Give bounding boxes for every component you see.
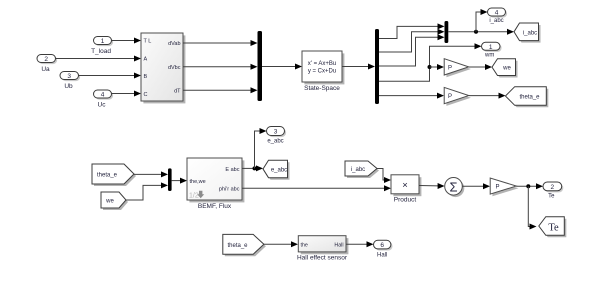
svg-text:i_abc: i_abc <box>523 30 537 36</box>
wire from we to mux3 <box>126 182 168 200</box>
wire branch to gain P1 <box>430 64 445 70</box>
svg-text:BEMF, Flux: BEMF, Flux <box>198 203 232 210</box>
svg-text:×: × <box>402 180 408 191</box>
gain P1 <box>444 59 471 77</box>
svg-text:the: the <box>301 243 308 249</box>
mux Mux3 <box>168 168 172 191</box>
svg-text:Ua: Ua <box>41 66 50 73</box>
wire inport4 to block C <box>112 91 142 97</box>
subsystem Hall effect sensor <box>297 236 348 262</box>
wire dVab to mux1 <box>183 40 258 46</box>
svg-text:Te: Te <box>548 194 555 200</box>
mux Mux1 <box>258 31 263 101</box>
wire dT to mux1 <box>183 87 258 93</box>
product block <box>391 175 421 204</box>
wire from i_abc to product in1 <box>377 169 391 184</box>
svg-text:theta_e: theta_e <box>227 243 248 249</box>
svg-text:2: 2 <box>44 56 48 63</box>
svg-text:the,we: the,we <box>190 179 206 185</box>
outport 2 Te <box>543 182 563 200</box>
from tag i_abc <box>345 161 379 178</box>
svg-text:we: we <box>502 66 511 72</box>
inport 2 Ua <box>37 55 57 73</box>
from tag theta_e (BEMF row) <box>92 164 136 186</box>
wire E abc to goto e_abc <box>242 165 263 171</box>
outport 6 Hall <box>374 240 393 258</box>
svg-text:1: 1 <box>489 44 493 51</box>
svg-text:Hall: Hall <box>334 243 343 249</box>
svg-text:C: C <box>144 92 148 98</box>
svg-text:Uc: Uc <box>98 101 107 108</box>
inport 1 T_load <box>91 37 113 55</box>
svg-text:dVab: dVab <box>168 41 180 47</box>
wire inport3 to block B <box>79 73 142 79</box>
junction dot wm branch <box>428 65 432 69</box>
from tag theta_e (Hall row) <box>223 234 266 256</box>
svg-text:3: 3 <box>274 129 278 136</box>
wire mux1 to State-Space <box>262 64 302 70</box>
svg-text:Hall effect sensor: Hall effect sensor <box>297 254 348 261</box>
gain P3 <box>490 178 518 196</box>
svg-text:2: 2 <box>550 184 554 191</box>
wire inport1 to block A <box>112 38 142 44</box>
svg-text:theta_e: theta_e <box>519 95 540 101</box>
svg-text:3: 3 <box>67 73 71 80</box>
svg-text:dVbc: dVbc <box>168 65 181 71</box>
wire branch to outport 4 <box>476 9 488 32</box>
wire product to sum <box>419 183 445 189</box>
wire inport2 to block A <box>56 56 142 62</box>
svg-text:we: we <box>105 199 114 205</box>
goto tag theta_e <box>505 87 548 108</box>
svg-text:6: 6 <box>380 242 384 249</box>
goto tag i_abc <box>514 23 541 43</box>
svg-text:P: P <box>448 94 452 100</box>
svg-text:Hall: Hall <box>377 252 387 258</box>
from tag we <box>101 192 128 210</box>
svg-text:i_abc: i_abc <box>351 167 365 173</box>
wire mux2 to goto i_abc <box>448 29 514 35</box>
svg-text:E abc: E abc <box>225 167 239 173</box>
svg-text:T L: T L <box>144 39 152 45</box>
svg-text:A: A <box>144 57 148 63</box>
svg-text:theta_e: theta_e <box>97 173 118 179</box>
svg-text:Σ: Σ <box>449 179 457 194</box>
goto tag we <box>492 59 518 78</box>
wire phi'r abc to product in2 <box>242 185 391 191</box>
svg-text:B: B <box>144 74 148 80</box>
sum block <box>445 178 465 198</box>
inport 4 Uc <box>94 90 114 108</box>
wire demux out4 to outport wm <box>379 43 482 81</box>
svg-text:wm: wm <box>484 53 494 59</box>
wire mux3 to BEMF <box>172 178 187 184</box>
svg-text:1/2: 1/2 <box>189 193 199 200</box>
svg-text:Product: Product <box>394 197 417 204</box>
outport 4 i_abc <box>488 8 508 24</box>
junction dot e_abc branch <box>253 166 257 170</box>
wire gain P2 to goto theta_e <box>469 93 506 99</box>
svg-text:phi'r abc: phi'r abc <box>219 187 240 193</box>
wire demux out5 to gain P2 <box>379 93 444 99</box>
svg-text:i_abc: i_abc <box>489 18 503 24</box>
svg-text:y = Cx+Du: y = Cx+Du <box>308 69 336 75</box>
svg-text:x' = Ax+Bu: x' = Ax+Bu <box>308 61 337 67</box>
wire from theta_e to Hall block <box>264 241 298 247</box>
State-Space block <box>302 51 344 92</box>
svg-text:1: 1 <box>101 38 105 45</box>
wire State-Space to demux <box>342 64 375 70</box>
wire dVbc to mux1 <box>183 64 258 70</box>
goto tag Te <box>539 217 567 238</box>
mux Mux2 <box>445 21 449 43</box>
wire from theta_e to mux3 <box>134 171 168 177</box>
gain P2 <box>444 87 471 105</box>
outport 1 wm <box>482 42 502 58</box>
svg-text:P: P <box>448 65 452 71</box>
svg-text:T_load: T_load <box>91 48 111 55</box>
svg-text:P: P <box>496 184 500 190</box>
junction dot i_abc branch <box>474 30 478 34</box>
wire demux out2 to mux2 in2 <box>379 29 445 52</box>
outport 3 e_abc <box>267 127 287 145</box>
svg-text:4: 4 <box>495 10 499 17</box>
wire demux out1 to mux2 in1 <box>379 23 445 38</box>
svg-text:Ub: Ub <box>64 83 73 90</box>
svg-text:Te: Te <box>548 223 559 234</box>
wire branch to outport 3 <box>255 128 267 168</box>
svg-text:4: 4 <box>101 92 105 99</box>
subsystem BEMF, Flux <box>187 158 244 210</box>
wire sum to gain P <box>462 183 490 189</box>
inport 3 Ub <box>60 72 80 91</box>
demux Demux <box>375 29 379 104</box>
junction dot Te branch <box>526 184 530 188</box>
wire gain P3 to outport 2 <box>516 183 543 189</box>
wire demux out3 to mux2 in3 <box>379 34 445 66</box>
wire Hall block to outport 6 <box>346 241 374 247</box>
goto tag e_abc <box>263 160 290 180</box>
wire gain P1 to goto we <box>469 64 492 70</box>
svg-text:e_abc: e_abc <box>271 167 287 173</box>
subsystem block motor model <box>141 33 185 103</box>
svg-text:State-Space: State-Space <box>304 85 340 92</box>
svg-text:dT: dT <box>174 88 181 94</box>
wire branch to goto Te <box>528 186 536 229</box>
svg-text:e_abc: e_abc <box>267 138 283 144</box>
